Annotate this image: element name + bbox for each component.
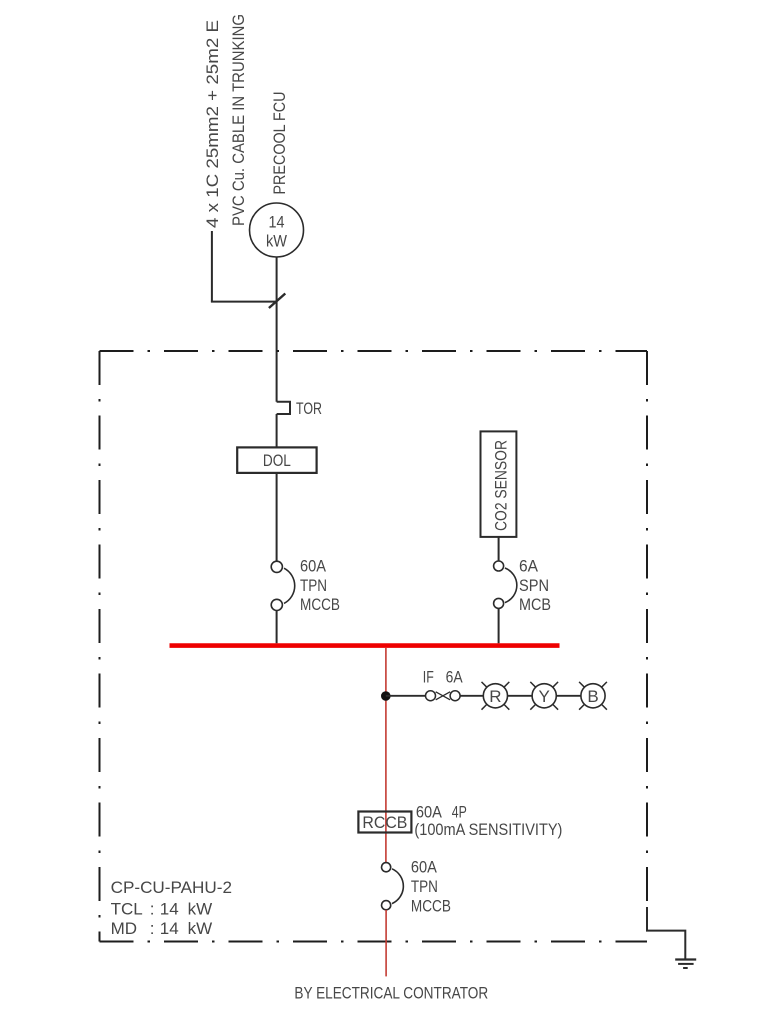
fuse IF 6A [426,691,461,701]
indicator lamp R [482,682,510,710]
earth wire from enclosure [647,907,685,960]
red outgoing wire [385,910,387,977]
svg-text:TCL:14kW: TCL:14kW [111,899,213,918]
wire: cable branch horizontal [211,301,277,303]
svg-text:CP-CU-PAHU-2: CP-CU-PAHU-2 [111,878,232,897]
DOL starter box [237,447,316,473]
svg-text:14: 14 [269,213,285,232]
svg-text:PRECOOL FCU: PRECOOL FCU [270,92,289,195]
svg-text:MCCB: MCCB [411,896,451,915]
red feeder wire: busbar to RCCB [385,648,387,863]
wire: cable branch vertical [211,231,213,302]
svg-text:IF: IF [423,668,434,687]
label 60A TPN MCCB [300,557,340,615]
label 60A 4P [416,802,467,821]
svg-text:BY ELECTRICAL CONTRATOR: BY ELECTRICAL CONTRATOR [294,983,488,1002]
wire: CB2 to busbar [498,608,500,643]
svg-text:RCCB: RCCB [362,813,407,832]
svg-text:R: R [489,687,501,706]
breaker CB1 60A TPN MCCB [271,561,295,610]
breaker CB3 60A TPN MCCB [382,863,404,910]
svg-text:DOL: DOL [263,451,291,470]
wire: TOR to DOL [276,414,278,447]
svg-text:Y: Y [539,687,550,706]
indicator lamp B [579,682,607,710]
wire: CB1 to busbar [276,611,278,644]
busbar (red) [170,643,560,648]
panel enclosure dashed border right [646,351,648,917]
svg-text:6A: 6A [519,557,539,576]
RCCB box [358,812,411,833]
junction node dot [381,691,391,701]
wire: CO2 sensor to CB2 [498,537,500,561]
wire: load circle to TOR [276,257,278,402]
motor/load circle 14 kW [250,203,304,257]
wire: fuse to lamp R [460,695,483,697]
svg-text:4 x 1C 25mm2 + 25m2 E: 4 x 1C 25mm2 + 25m2 E [203,20,222,228]
breaker CB2 6A SPN MCB [494,561,517,608]
wire: lamp Y to lamp B [556,695,581,697]
cable core slash mark [269,294,285,309]
svg-text:PVC Cu. CABLE IN TRUNKING: PVC Cu. CABLE IN TRUNKING [229,14,248,226]
svg-text:MCB: MCB [519,595,551,614]
svg-text:4P: 4P [452,802,467,821]
ground symbol [675,960,696,969]
svg-text:60A: 60A [411,858,438,877]
label 6A SPN MCB [519,557,551,615]
thermal overload relay TOR [277,402,290,414]
svg-text:MD:14kW: MD:14kW [111,919,213,938]
panel enclosure dashed border left [99,351,101,942]
svg-text:60A: 60A [416,802,443,821]
svg-text:6A: 6A [446,668,464,687]
svg-text:B: B [587,687,598,706]
svg-text:kW: kW [266,232,287,251]
svg-text:TPN: TPN [411,877,438,896]
indicator lamp Y [530,682,558,710]
svg-text:TOR: TOR [296,399,322,418]
svg-text:(100mA SENSITIVITY): (100mA SENSITIVITY) [414,820,562,839]
label IF 6A [423,668,463,687]
wire: DOL to CB1 [276,473,278,561]
label 60A TPN MCCB [411,858,451,916]
svg-text:MCCB: MCCB [300,595,340,614]
panel enclosure dashed border top [100,350,648,352]
wire: node to fuse [386,695,426,697]
panel enclosure dashed border bottom [100,941,648,943]
CO2 sensor box [481,431,517,537]
svg-text:60A: 60A [300,557,327,576]
svg-text:SPN: SPN [519,576,549,595]
svg-text:CO2 SENSOR: CO2 SENSOR [492,440,511,531]
wire: lamp R to lamp Y [508,695,533,697]
svg-text:TPN: TPN [300,576,327,595]
